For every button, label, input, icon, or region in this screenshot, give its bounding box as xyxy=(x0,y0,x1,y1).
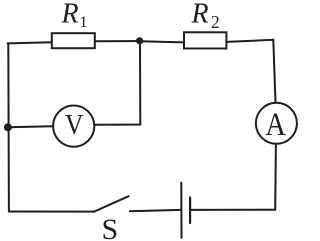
svg-text:R: R xyxy=(61,0,79,29)
svg-text:S: S xyxy=(102,213,119,241)
svg-text:A: A xyxy=(265,106,285,142)
svg-text:2: 2 xyxy=(211,12,220,32)
svg-text:1: 1 xyxy=(80,14,88,31)
svg-text:V: V xyxy=(65,109,84,140)
svg-text:R: R xyxy=(191,0,209,29)
